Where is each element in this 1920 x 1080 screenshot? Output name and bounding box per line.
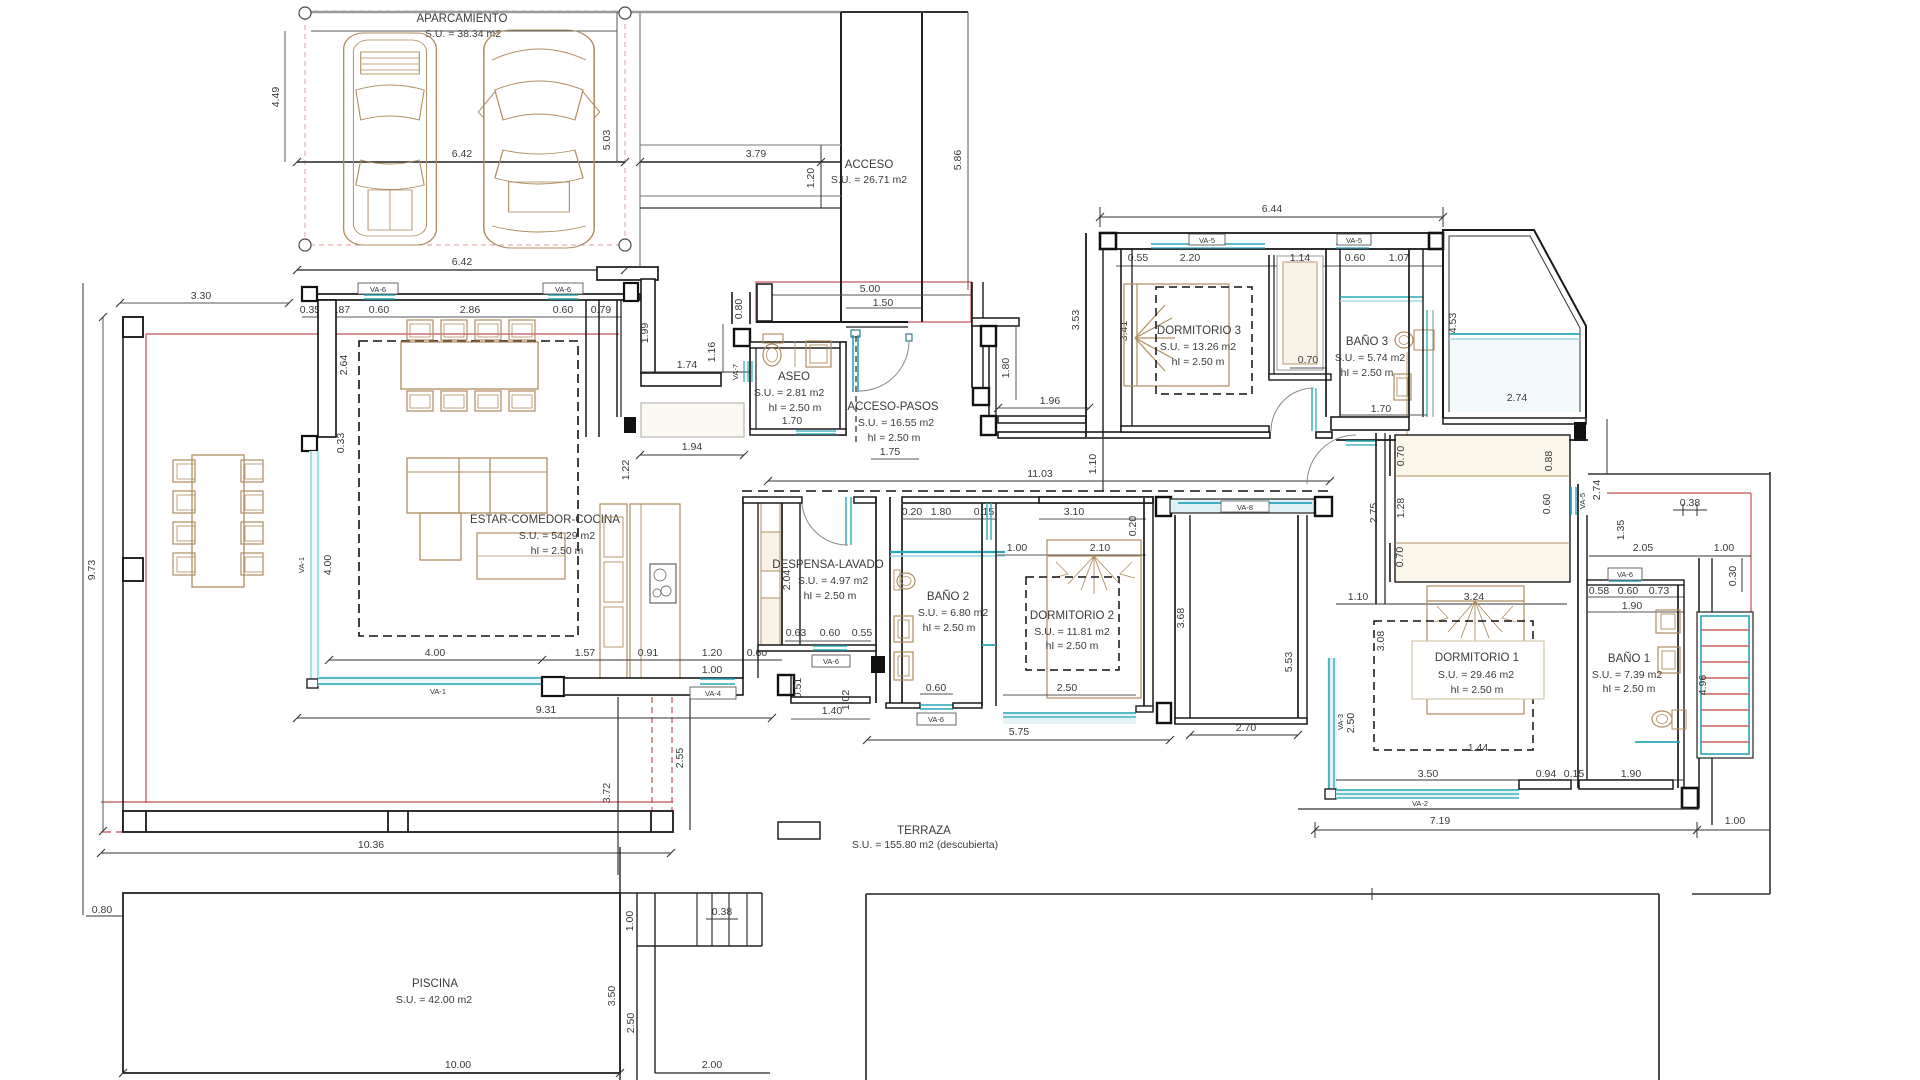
svg-text:VA-6: VA-6 — [555, 285, 571, 294]
svg-text:4.49: 4.49 — [270, 87, 282, 108]
svg-text:1.10: 1.10 — [1348, 591, 1369, 603]
ticks 11.03 — [764, 477, 772, 485]
garage corner circle BL — [299, 239, 311, 251]
svg-text:0.20: 0.20 — [1127, 516, 1139, 537]
dorm1 door arc — [1307, 435, 1356, 484]
red line right wing top — [1607, 492, 1751, 494]
svg-text:2.04: 2.04 — [781, 570, 793, 591]
bano3 west wall — [1325, 249, 1327, 417]
window VA-4 — [700, 678, 735, 680]
window VA-5 east vertical — [1570, 487, 1572, 515]
svg-text:1.80: 1.80 — [1000, 358, 1012, 379]
outdoor chairs right — [241, 460, 263, 575]
tall cabinets — [760, 503, 762, 650]
wing north pier W — [1100, 233, 1116, 249]
entry south wall band — [641, 373, 721, 386]
ticks 6.44 — [1096, 213, 1104, 221]
bano2 fixture 1 — [894, 616, 913, 642]
svg-text:DORMITORIO 2: DORMITORIO 2 — [1030, 610, 1114, 622]
svg-text:VA-1: VA-1 — [297, 557, 306, 573]
steps outer — [636, 893, 638, 1080]
svg-text:1.94: 1.94 — [682, 441, 703, 453]
svg-text:BAÑO 1: BAÑO 1 — [1608, 652, 1650, 665]
svg-text:1.16: 1.16 — [706, 342, 718, 363]
bano3 tan line — [1406, 352, 1408, 437]
svg-text:2.05: 2.05 — [1633, 542, 1654, 554]
svg-text:1.00: 1.00 — [1725, 815, 1746, 827]
svg-text:ACCESO-PASOS: ACCESO-PASOS — [847, 401, 938, 413]
svg-text:2.50: 2.50 — [625, 1013, 637, 1034]
svg-text:0.80: 0.80 — [92, 904, 113, 916]
svg-text:VA-3: VA-3 — [1336, 714, 1345, 730]
svg-text:0.60: 0.60 — [820, 627, 841, 639]
svg-text:0.60: 0.60 — [926, 682, 947, 694]
red roof line terrace top — [146, 333, 619, 335]
lower terrace left edge — [865, 894, 867, 1080]
svg-text:3.79: 3.79 — [746, 148, 767, 160]
terrace post top — [123, 317, 143, 337]
lower terrace top edge — [866, 893, 1659, 895]
dorm2 south window — [1003, 712, 1136, 724]
garage corner circle TR — [619, 7, 631, 19]
dining table — [401, 342, 538, 389]
svg-text:1.22: 1.22 — [620, 460, 632, 481]
ticks 1.96 — [994, 404, 1002, 412]
despensa top wall — [743, 497, 802, 503]
dorm2 west window cyan — [986, 503, 988, 540]
bano1 south wall — [1579, 780, 1673, 789]
dorm1 bed — [1427, 586, 1524, 714]
red roof line terrace outer bottom — [101, 831, 673, 833]
property boundary east — [1769, 472, 1771, 894]
walkway bottom line — [1298, 808, 1699, 810]
sofa — [407, 458, 547, 560]
svg-text:9.73: 9.73 — [86, 560, 98, 581]
ASEO west wall — [749, 342, 751, 429]
dim 9.73 line — [102, 317, 104, 831]
bano2 shower screen cyan — [890, 551, 1005, 553]
svg-text:5.75: 5.75 — [1009, 726, 1030, 738]
ticks 10.36 — [97, 849, 105, 857]
dim 1.75 bracket — [871, 458, 919, 460]
svg-text:S.U. = 54.29 m2: S.U. = 54.29 m2 — [519, 530, 595, 542]
svg-text:3.50: 3.50 — [606, 986, 618, 1007]
ticks 3.30 — [116, 299, 124, 307]
svg-text:4.53: 4.53 — [1447, 313, 1459, 334]
svg-text:0.88: 0.88 — [1543, 451, 1555, 472]
canopy small post — [757, 284, 772, 321]
svg-text:VA-6: VA-6 — [928, 715, 944, 724]
svg-text:7.19: 7.19 — [1430, 815, 1451, 827]
svg-text:0.80: 0.80 — [733, 299, 745, 320]
svg-text:0.63: 0.63 — [786, 627, 807, 639]
bano3 east wall — [1408, 249, 1410, 417]
north wall pier E — [624, 283, 638, 301]
coffee table — [477, 533, 565, 579]
dim 3.72 vertical line — [617, 697, 619, 875]
dim 5.86 line — [967, 12, 969, 290]
wing north pier E — [1429, 233, 1443, 249]
svg-text:3.68: 3.68 — [1175, 608, 1187, 629]
svg-text:1.96: 1.96 — [1040, 395, 1061, 407]
svg-text:ACCESO: ACCESO — [845, 159, 894, 171]
dim 3.30 line — [120, 302, 289, 304]
svg-text:2.10: 2.10 — [1090, 542, 1111, 554]
dim 1.16 line — [722, 324, 724, 373]
svg-text:hI = 2.50 m: hI = 2.50 m — [804, 590, 857, 602]
dorm2 west wall — [981, 503, 983, 706]
closet block — [1395, 435, 1570, 582]
garage dim line 6.05 top — [311, 30, 617, 32]
svg-text:0.60: 0.60 — [553, 304, 574, 316]
svg-text:VA-2: VA-2 — [1412, 799, 1428, 808]
dorm1 west wall upper — [1375, 433, 1377, 604]
bano2 north wall band — [902, 497, 1153, 503]
ASEO bottom wall — [750, 429, 846, 435]
dorm3 bed — [1124, 284, 1229, 386]
corner terrace inner — [1449, 236, 1580, 412]
VA-4 label box — [690, 687, 736, 699]
svg-text:S.U. = 155.80 m2 (descubierta): S.U. = 155.80 m2 (descubierta) — [852, 839, 998, 851]
svg-text:0.91: 0.91 — [638, 647, 659, 659]
svg-text:PISCINA: PISCINA — [412, 978, 458, 990]
red roof line terrace left — [145, 334, 147, 803]
svg-text:3.53: 3.53 — [1070, 310, 1082, 331]
svg-text:S.U. = 6.80 m2: S.U. = 6.80 m2 — [918, 607, 988, 619]
window VA-2 end square — [1325, 789, 1336, 799]
svg-text:1.80: 1.80 — [931, 506, 952, 518]
dorm3 east wall — [1268, 255, 1270, 379]
entry door glass — [852, 335, 854, 392]
ticks 6.42 mid — [293, 158, 301, 166]
dorm2 bed — [1047, 540, 1141, 698]
svg-text:5.00: 5.00 — [860, 283, 881, 295]
svg-text:1.44: 1.44 — [1468, 742, 1489, 754]
svg-text:S.U. = 42.00 m2: S.U. = 42.00 m2 — [396, 994, 472, 1006]
svg-text:hI = 2.50 m: hI = 2.50 m — [1451, 684, 1504, 696]
ticks 10.00 pool — [119, 1069, 127, 1077]
estar west pier bottom — [302, 436, 317, 451]
svg-text:2.50: 2.50 — [1345, 713, 1357, 734]
bano2 fixture 2 — [894, 652, 913, 680]
bano1 north wall — [1587, 580, 1684, 585]
svg-text:hI = 2.50 m: hI = 2.50 m — [1172, 356, 1225, 368]
terrace south wall post center a — [387, 811, 389, 832]
svg-text:2.74: 2.74 — [1591, 480, 1603, 501]
toilet ASEO — [763, 334, 783, 343]
outdoor chairs left — [173, 460, 195, 575]
dorm1 south wall segment — [1519, 780, 1571, 789]
dorm1 east wall — [1577, 484, 1579, 788]
window VA-6 north 1 label — [358, 283, 398, 294]
svg-text:0.70: 0.70 — [1394, 547, 1406, 568]
svg-text:5.86: 5.86 — [952, 150, 964, 171]
svg-text:DORMITORIO 1: DORMITORIO 1 — [1435, 652, 1519, 664]
ASEO top wall — [750, 342, 846, 348]
despensa door arc — [802, 504, 848, 545]
svg-text:0.51: 0.51 — [792, 678, 804, 699]
svg-text:1.70: 1.70 — [782, 415, 803, 427]
svg-text:hI = 2.50 m: hI = 2.50 m — [1603, 683, 1656, 695]
garage south wall band — [597, 267, 658, 280]
dim row 4.00/1.57/0.91/1.20/0.60 line — [329, 659, 782, 661]
bano3 toilet — [1394, 374, 1411, 400]
red dashed vertical A below kitchen — [651, 697, 653, 830]
entry east wall — [971, 282, 973, 388]
despensa bottom wall — [758, 645, 876, 651]
dorm3 door arc — [1271, 388, 1314, 431]
svg-text:0.60: 0.60 — [1345, 252, 1366, 264]
bano2 bottom wall right — [953, 703, 982, 708]
svg-text:2.75: 2.75 — [1368, 503, 1380, 524]
small hall wall bottom — [791, 697, 870, 703]
kitchen island — [630, 504, 680, 678]
dim 2.74 vertical line — [1606, 419, 1608, 474]
svg-text:9.31: 9.31 — [536, 704, 557, 716]
window VA-1 south band — [318, 676, 542, 686]
red roof line terrace inner bottom — [101, 801, 673, 803]
dim 10.36 line — [101, 852, 671, 854]
svg-text:1.70: 1.70 — [1371, 403, 1392, 415]
closet shelf lines — [1395, 475, 1570, 477]
window VA-2 band — [1336, 789, 1519, 799]
sink ASEO — [806, 341, 831, 367]
canopy dim 5.00 line — [756, 294, 971, 296]
step treads — [696, 893, 698, 946]
svg-text:S.U. = 7.39 m2: S.U. = 7.39 m2 — [1592, 669, 1662, 681]
west glazing VA-1 vertical — [309, 451, 320, 679]
svg-text:6.42: 6.42 — [452, 148, 473, 160]
svg-text:1.00: 1.00 — [702, 664, 723, 676]
hall east corridor wall E — [1297, 515, 1299, 724]
svg-text:1.57: 1.57 — [575, 647, 596, 659]
svg-text:ESTAR-COMEDOR-COCINA: ESTAR-COMEDOR-COCINA — [470, 514, 620, 526]
svg-text:1.74: 1.74 — [677, 359, 698, 371]
dim 1.74 line — [641, 371, 750, 373]
dorm2 west wall teal cap — [982, 644, 996, 646]
svg-text:0.38: 0.38 — [712, 906, 733, 918]
svg-text:2.20: 2.20 — [1180, 252, 1201, 264]
svg-text:3.10: 3.10 — [1064, 506, 1085, 518]
entry floor mat — [641, 403, 744, 437]
despensa door jamb glass — [845, 497, 847, 545]
ticks 3.79 — [636, 158, 644, 166]
terrace south wall post right — [650, 811, 652, 832]
svg-text:1.00: 1.00 — [624, 911, 636, 932]
west glazing end square — [307, 679, 318, 688]
svg-text:S.U. = 29.46 m2: S.U. = 29.46 m2 — [1438, 669, 1514, 681]
svg-text:2.74: 2.74 — [1507, 392, 1528, 404]
svg-text:TERRAZA: TERRAZA — [897, 825, 951, 837]
svg-text:1.35: 1.35 — [1615, 520, 1627, 541]
hall south wall long band — [998, 432, 1270, 438]
despensa west wall — [781, 503, 783, 650]
svg-text:1.99: 1.99 — [639, 323, 651, 344]
despensa east wall — [875, 497, 877, 703]
svg-text:0.60: 0.60 — [369, 304, 390, 316]
wall stub above ASEO — [731, 292, 733, 324]
garage dim 6.42 bottom line — [297, 269, 625, 271]
svg-text:10.36: 10.36 — [358, 839, 384, 851]
dim 1.80 line — [1015, 326, 1017, 400]
corner terrace cyan band — [1449, 333, 1580, 335]
kitchen wall west of despensa — [742, 497, 744, 678]
north wall pier W — [302, 287, 317, 301]
estar dashed boundary — [359, 341, 578, 636]
lower terrace right edge — [1658, 894, 1660, 1080]
svg-text:1.75: 1.75 — [880, 446, 901, 458]
pier dorm2 NE — [1156, 497, 1171, 516]
svg-text:0.94: 0.94 — [1536, 768, 1557, 780]
property boundary west — [82, 283, 84, 915]
canopy dim 1.50 line — [846, 307, 921, 309]
pool right vertical long — [619, 847, 621, 1080]
hall west wall tall — [1085, 233, 1087, 437]
north wall jog right of entry — [972, 318, 1019, 326]
svg-text:S.U. = 11.81 m2: S.U. = 11.81 m2 — [1034, 626, 1110, 638]
svg-text:0.55: 0.55 — [1128, 252, 1149, 264]
svg-text:VA-5: VA-5 — [1199, 236, 1215, 245]
svg-text:2.55: 2.55 — [674, 748, 686, 769]
svg-text:0.70: 0.70 — [1298, 354, 1319, 366]
svg-text:S.U. = 26.71 m2: S.U. = 26.71 m2 — [831, 174, 907, 186]
bano2 west wall — [901, 504, 903, 703]
corner terrace light fill — [1450, 339, 1579, 412]
svg-text:VA-4: VA-4 — [705, 689, 721, 698]
svg-text:S.U. = 2.81 m2: S.U. = 2.81 m2 — [754, 387, 824, 399]
terrace south wall band — [123, 811, 673, 832]
svg-text:0.33: 0.33 — [335, 433, 347, 454]
ticks 9.73 — [99, 313, 107, 321]
ticks 9.31 — [293, 714, 301, 722]
ticks 4.00 south — [325, 656, 333, 664]
dining chairs bottom row — [407, 391, 535, 411]
svg-text:VA-5: VA-5 — [1346, 236, 1362, 245]
corner pier — [1574, 422, 1586, 441]
svg-text:1.07: 1.07 — [1389, 252, 1410, 264]
closet left bracket bottom — [1389, 543, 1391, 582]
estar east wall a — [585, 300, 587, 437]
svg-text:VA-5: VA-5 — [1578, 493, 1587, 509]
terrace south wall post left — [145, 811, 147, 832]
car 1 left — [344, 33, 437, 245]
estar west wall — [318, 300, 336, 437]
corner terrace bottom band — [1443, 418, 1586, 424]
ticks 5.75 — [863, 736, 871, 744]
outdoor table — [192, 455, 244, 587]
pier below entry east wall — [973, 388, 989, 405]
dorm3 west wall — [1120, 249, 1122, 432]
dim 1.10 vertical — [1102, 438, 1104, 491]
entry court wall right — [921, 12, 923, 322]
svg-text:4.96: 4.96 — [1697, 675, 1709, 696]
window VA-6 north 2 label — [543, 283, 583, 294]
svg-text:0.30: 0.30 — [1727, 566, 1739, 587]
svg-text:2.50: 2.50 — [1057, 682, 1078, 694]
pier VA-8 east — [1315, 497, 1332, 516]
svg-text:hI = 2.50 m: hI = 2.50 m — [531, 545, 584, 557]
svg-text:3.50: 3.50 — [1418, 768, 1439, 780]
window VA-7 — [743, 361, 745, 382]
dorm1 south dim row — [1336, 779, 1684, 781]
dorm3 south wall band — [1121, 426, 1269, 432]
dim 2.55 vertical line — [689, 697, 691, 830]
north dim row line — [302, 316, 621, 318]
driveway line 1 — [640, 144, 841, 146]
closet left bracket top — [1389, 435, 1391, 476]
svg-text:VA-1: VA-1 — [430, 687, 446, 696]
corridor wall lines — [1698, 558, 1700, 808]
pier below despensa — [778, 675, 794, 695]
svg-text:0.79: 0.79 — [591, 304, 612, 316]
svg-text:3.08: 3.08 — [1375, 631, 1387, 652]
red line right wing side — [1750, 493, 1752, 614]
dorm3 dashed boundary — [1156, 287, 1252, 394]
ASEO east wall — [840, 342, 846, 435]
svg-text:0.60: 0.60 — [1618, 585, 1639, 597]
transom window top left — [1346, 440, 1377, 442]
bano3 south wall band — [1331, 417, 1409, 430]
svg-text:hI = 2.50 m: hI = 2.50 m — [1341, 367, 1394, 379]
svg-text:0.60: 0.60 — [1541, 494, 1553, 515]
svg-text:hI = 2.50 m: hI = 2.50 m — [923, 622, 976, 634]
bano1 VA-6 window — [1609, 580, 1641, 582]
pier above ASEO — [734, 329, 750, 346]
pier B — [981, 416, 996, 435]
dorm1 label box — [1412, 641, 1544, 699]
bano3 sink — [1395, 332, 1413, 348]
svg-text:4.00: 4.00 — [322, 555, 334, 576]
svg-text:VA-8: VA-8 — [1237, 503, 1253, 512]
bano2 bottom wall left — [886, 703, 920, 708]
svg-text:0.58: 0.58 — [1589, 585, 1610, 597]
ticks 1.94 — [636, 451, 644, 459]
driveway line 2 — [640, 195, 841, 197]
pool rect — [123, 893, 620, 1073]
corner terrace outer — [1443, 230, 1586, 418]
dorm2 east wall — [1143, 498, 1145, 711]
svg-text:0.70: 0.70 — [1395, 446, 1407, 467]
ASEO bottom window cyan — [796, 430, 836, 432]
svg-text:VA-6: VA-6 — [370, 285, 386, 294]
pier A — [981, 326, 996, 346]
closet niche — [1277, 256, 1323, 370]
entry door small jamb right — [906, 334, 912, 341]
red rect ACCESO canopy — [756, 282, 971, 322]
entry west wall vertical band — [641, 279, 655, 373]
svg-text:1.50: 1.50 — [873, 297, 894, 309]
garage corner circle BR — [619, 239, 631, 251]
svg-text:hI = 2.50 m: hI = 2.50 m — [1046, 640, 1099, 652]
garage dim 4.49 left line — [284, 31, 286, 162]
pier dorm2 SE — [1157, 703, 1171, 723]
svg-text:VA-7: VA-7 — [731, 364, 740, 380]
hall dashed line — [742, 490, 1334, 492]
garage dim 5.03 right line — [616, 12, 618, 162]
dorm2 south wall stub — [1136, 706, 1153, 712]
estar east wall b — [616, 300, 618, 417]
svg-text:6.44: 6.44 — [1262, 203, 1283, 215]
svg-text:S.U. = 5.74 m2: S.U. = 5.74 m2 — [1335, 352, 1405, 364]
garage corner circle TL — [299, 7, 311, 19]
kitchen south wall band — [564, 678, 743, 695]
svg-text:VA-6: VA-6 — [1617, 570, 1633, 579]
driveway dim 1.20 tick — [820, 145, 822, 208]
dining chairs top row — [407, 320, 535, 340]
dorm2 top wall band — [1039, 497, 1153, 503]
entry door dashed leaf — [855, 336, 857, 443]
svg-text:3.30: 3.30 — [191, 290, 212, 302]
